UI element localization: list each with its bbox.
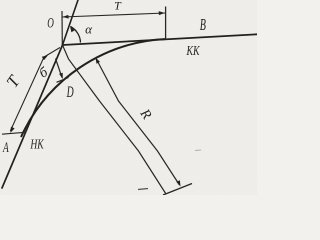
tick: centre mark perpendicular to R xyxy=(163,184,192,196)
arrowhead of Б dimension xyxy=(59,73,63,79)
svg-text:В: В xyxy=(200,16,207,34)
svg-text:O: O xyxy=(47,14,54,31)
svg-text:A: A xyxy=(2,139,9,156)
wire: tangent line 2 (O–КК–B) xyxy=(63,34,258,45)
wire: bisector line from O through D to circle centre xyxy=(63,45,167,194)
arrowhead bottom of left T dimension xyxy=(10,127,14,133)
wire: tangent 1 extension beyond vertex O xyxy=(63,0,79,45)
svg-text:НК: НК xyxy=(30,135,45,151)
wire: vertical extension line above vertex O xyxy=(61,11,63,45)
dimension line R (radius) xyxy=(96,58,180,186)
dimension line T (left side, along tangent 1) xyxy=(10,48,60,132)
wire: tangent line 1 (A–НК–O) xyxy=(2,45,63,188)
dimension line T (top) xyxy=(62,13,165,17)
tick on curve at end of Б xyxy=(57,78,69,83)
arrowhead right of top T dimension xyxy=(159,11,165,15)
arrowhead of alpha arc xyxy=(70,26,75,32)
faint stray mark right of R line xyxy=(195,149,201,152)
stray pencil dash near centre mark xyxy=(138,189,148,190)
svg-text:D: D xyxy=(66,82,74,100)
tick at НК end of left T dimension xyxy=(2,132,25,134)
tick: vertical mark at КК xyxy=(165,7,167,41)
curve: circular arc НК to КК, radius R xyxy=(21,39,166,137)
arrowhead top of R dimension (on curve) xyxy=(96,58,101,64)
angle arc alpha at vertex xyxy=(71,27,81,43)
svg-text:КК: КК xyxy=(186,43,201,58)
arrowhead bottom of R dimension (at centre) xyxy=(176,180,180,186)
svg-text:α: α xyxy=(85,22,93,37)
arrowhead top of left T dimension xyxy=(42,55,48,60)
dimension Б (bisector distance O to curve) xyxy=(56,59,63,78)
arrowhead left of top T dimension xyxy=(63,15,69,19)
